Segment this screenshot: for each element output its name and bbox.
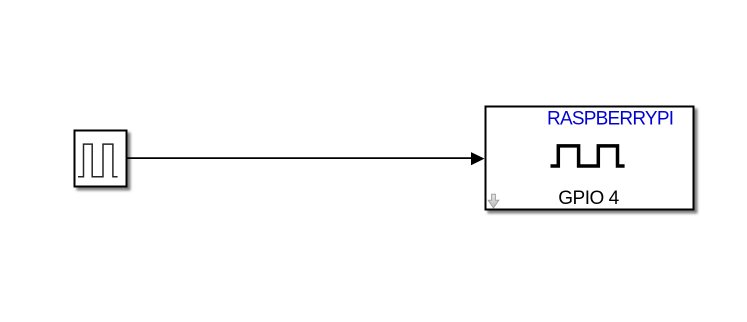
pulse generator block (body) (75, 131, 127, 187)
wire arrowhead at GPIO block input port (471, 152, 485, 165)
download arrow badge (bottom-left of GPIO block) (488, 194, 499, 208)
label GPIO 4 (558, 188, 619, 209)
GPIO block icon (thick square wave) (551, 146, 625, 166)
svg-text:RASPBERRYPI: RASPBERRYPI (547, 108, 674, 129)
label RASPBERRYPI (547, 108, 674, 129)
wire from pulse generator to GPIO block (128, 157, 473, 159)
svg-text:GPIO 4: GPIO 4 (558, 188, 619, 209)
GPIO write block U1 (body) (486, 107, 694, 210)
pulse generator icon (square wave) (78, 144, 118, 177)
